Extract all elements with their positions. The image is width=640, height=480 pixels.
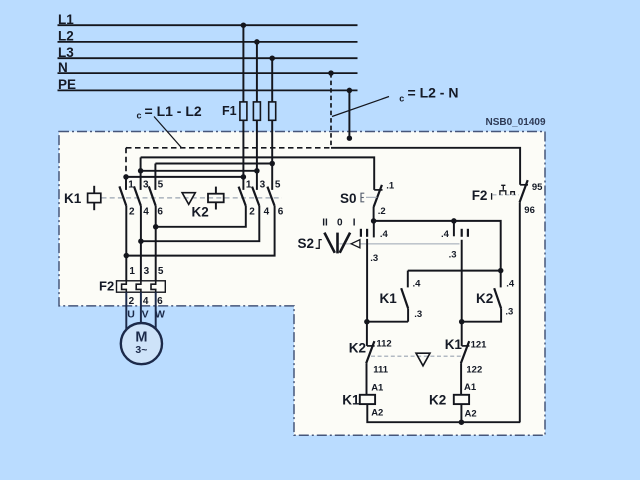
svg-text:A1: A1 <box>464 382 477 393</box>
svg-text:.3: .3 <box>449 250 457 261</box>
svg-text:A2: A2 <box>465 409 477 420</box>
svg-text:.1: .1 <box>386 181 395 192</box>
svg-text:K1: K1 <box>445 337 463 352</box>
svg-text:0: 0 <box>337 218 343 229</box>
svg-text:2: 2 <box>129 296 135 307</box>
svg-text:L2: L2 <box>58 29 74 44</box>
svg-text:4: 4 <box>264 206 270 217</box>
svg-text:A2: A2 <box>371 407 383 418</box>
svg-text:I: I <box>353 218 356 229</box>
svg-text:3: 3 <box>260 180 266 191</box>
svg-text:6: 6 <box>157 296 163 307</box>
svg-text:.2: .2 <box>378 206 386 217</box>
svg-text:4: 4 <box>143 206 149 217</box>
svg-text:121: 121 <box>471 340 488 351</box>
svg-text:.4: .4 <box>441 229 450 240</box>
svg-text:6: 6 <box>278 206 284 217</box>
svg-text:NSB0_01409: NSB0_01409 <box>486 117 546 128</box>
svg-text:K2: K2 <box>429 393 446 408</box>
svg-text:S2: S2 <box>298 236 315 251</box>
svg-text:L3: L3 <box>58 45 74 60</box>
svg-text:1: 1 <box>128 180 134 191</box>
svg-text:c: c <box>137 111 142 121</box>
svg-text:.3: .3 <box>414 309 422 320</box>
svg-text:1: 1 <box>129 266 135 277</box>
svg-text:2: 2 <box>129 206 135 217</box>
svg-text:4: 4 <box>143 296 149 307</box>
svg-text:S0: S0 <box>340 191 357 206</box>
svg-text:K2: K2 <box>349 340 366 355</box>
svg-text:5: 5 <box>158 266 164 277</box>
svg-text:F1: F1 <box>222 104 237 118</box>
svg-text:3: 3 <box>144 266 150 277</box>
svg-text:3: 3 <box>143 180 149 191</box>
svg-text:L1: L1 <box>58 12 74 27</box>
svg-text:.4: .4 <box>413 279 422 290</box>
svg-text:.3: .3 <box>370 253 378 264</box>
svg-text:1: 1 <box>246 180 252 191</box>
svg-text:5: 5 <box>275 180 281 191</box>
svg-text:96: 96 <box>524 205 535 216</box>
svg-text:F2: F2 <box>472 188 488 203</box>
svg-text:3~: 3~ <box>135 344 147 356</box>
svg-text:K1: K1 <box>380 291 398 306</box>
svg-text:K2: K2 <box>476 291 493 306</box>
svg-text:.4: .4 <box>380 229 389 240</box>
svg-text:.4: .4 <box>506 279 515 290</box>
svg-text:95: 95 <box>532 182 543 193</box>
svg-text:112: 112 <box>376 339 391 350</box>
svg-text:II: II <box>322 218 328 229</box>
svg-text:PE: PE <box>58 77 76 92</box>
svg-text:c: c <box>399 93 404 103</box>
svg-text:6: 6 <box>157 206 163 217</box>
svg-text:F2: F2 <box>99 279 114 294</box>
svg-text:A1: A1 <box>371 383 384 394</box>
svg-text:= L2 - N: = L2 - N <box>408 85 459 101</box>
svg-text:V: V <box>142 308 149 320</box>
svg-text:N: N <box>58 60 68 75</box>
svg-text:K1: K1 <box>64 191 82 206</box>
svg-text:122: 122 <box>466 365 482 376</box>
svg-text:111: 111 <box>373 365 389 376</box>
svg-text:= L1 - L2: = L1 - L2 <box>145 103 202 119</box>
svg-text:K2: K2 <box>192 205 209 220</box>
svg-text:K1: K1 <box>342 393 360 408</box>
svg-text:2: 2 <box>249 206 255 217</box>
svg-text:U: U <box>127 308 135 320</box>
svg-text:.3: .3 <box>505 307 513 318</box>
svg-text:5: 5 <box>158 180 164 191</box>
